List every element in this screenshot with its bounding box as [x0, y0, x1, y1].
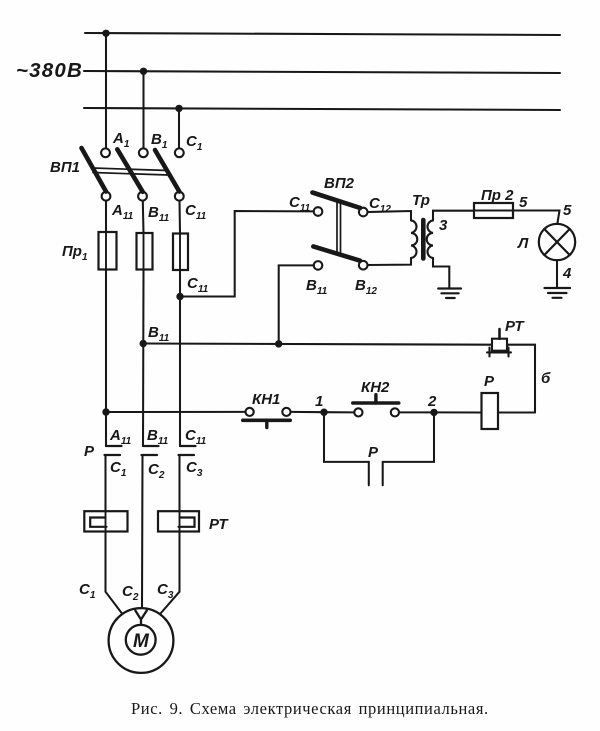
- button КН2: [353, 395, 399, 417]
- junction dot control tap A: [102, 408, 109, 415]
- svg-text:С3: С3: [157, 581, 174, 601]
- ВП2 contact circle В12: [359, 261, 368, 270]
- svg-text:В1: В1: [151, 131, 168, 151]
- svg-text:С11: С11: [187, 275, 209, 295]
- wire B11 to fuse: [142, 201, 145, 233]
- wire node2 to relay: [434, 411, 482, 413]
- heater РТ pole C: [158, 511, 199, 531]
- wire В12 to transformer primary bottom: [368, 258, 412, 265]
- svg-text:РТ: РТ: [209, 516, 229, 533]
- wire heater C to motor: [161, 532, 180, 614]
- svg-text:Пр 2: Пр 2: [481, 187, 514, 204]
- wire drop phase B from L2: [142, 71, 144, 148]
- bus line L3: [84, 108, 560, 110]
- aux contact Р left branch: [324, 412, 369, 485]
- svg-text:Тр: Тр: [412, 192, 430, 209]
- svg-text:С2: С2: [148, 461, 165, 481]
- svg-text:А1: А1: [112, 130, 130, 150]
- bus line L2: [84, 71, 560, 73]
- thermal contact РТ: [487, 329, 511, 357]
- aux contact Р right branch: [383, 412, 434, 485]
- ВП1 contact circle C1: [175, 148, 184, 157]
- svg-text:А11: А11: [111, 202, 134, 222]
- wire heater A to motor: [106, 532, 123, 614]
- svg-text:Рис. 9. Схема электрическая пр: Рис. 9. Схема электрическая принципиальн…: [131, 699, 489, 718]
- transformer core: [421, 220, 426, 259]
- svg-text:5: 5: [563, 202, 572, 219]
- ВП2 contact circle В11: [314, 261, 323, 270]
- fuse Пр1 pole C: [173, 234, 188, 271]
- wire control tap to КН1: [106, 411, 246, 413]
- wire secondary to fuse Пр2: [433, 211, 474, 221]
- svg-text:С2: С2: [122, 583, 139, 603]
- lamp Л: [539, 224, 575, 260]
- ВП2 blade pole C: [312, 193, 360, 208]
- wire B11 control feed: [143, 344, 492, 345]
- wire lamp to ground: [556, 260, 558, 287]
- wire КН1 to node 1: [291, 411, 324, 413]
- svg-text:Пр1: Пр1: [62, 243, 88, 263]
- svg-text:3: 3: [439, 217, 448, 234]
- svg-text:С11: С11: [185, 202, 207, 222]
- wire secondary bottom to ground: [433, 258, 449, 288]
- wire pole B down: [141, 455, 144, 608]
- junction dot L3/C: [175, 105, 182, 112]
- wire C11 to fuse: [178, 201, 181, 234]
- svg-text:В11: В11: [148, 204, 170, 224]
- fuse Пр1 pole B: [137, 233, 153, 270]
- wire C11 branch to ВП2: [180, 211, 314, 297]
- svg-text:В11: В11: [306, 277, 328, 297]
- ВП1 contact circle B11: [138, 192, 147, 201]
- junction dot ВП2-B branch: [275, 340, 282, 347]
- svg-text:1: 1: [315, 393, 323, 410]
- svg-text:М: М: [133, 631, 150, 652]
- main contact Р pole C: [179, 446, 196, 455]
- svg-text:4: 4: [562, 265, 572, 282]
- wire fuse to lamp: [513, 211, 560, 225]
- ВП1 blade pole B: [117, 149, 142, 192]
- wire С12 to transformer primary: [368, 211, 412, 220]
- wire drop phase C from L3: [178, 108, 180, 148]
- wire relay to corner: [498, 411, 535, 413]
- svg-text:б: б: [541, 370, 551, 387]
- fuse Пр1 pole A: [99, 232, 117, 270]
- svg-text:С11: С11: [185, 427, 207, 447]
- wire КН2 to node 2: [399, 411, 434, 413]
- svg-text:~380В: ~380В: [16, 59, 83, 82]
- junction dot C11 branch: [176, 293, 183, 300]
- motor М inner circle: [126, 625, 156, 655]
- ВП1 blade pole A: [82, 148, 107, 192]
- wire phase C fuse down: [179, 270, 181, 446]
- main contact Р pole A: [105, 446, 122, 455]
- ВП2 contact circle С11: [314, 207, 323, 216]
- wire ВП2 B11 branch: [279, 265, 314, 344]
- motor М outer circle: [109, 608, 174, 673]
- junction dot L2/B: [140, 68, 147, 75]
- transformer secondary winding: [427, 220, 433, 258]
- fuse Пр2: [474, 203, 513, 218]
- wire phase A fuse to control tap: [105, 270, 107, 447]
- svg-text:2: 2: [427, 393, 437, 410]
- wire РТ to corner: [507, 345, 535, 413]
- svg-text:Р: Р: [84, 443, 95, 460]
- relay coil Р: [482, 393, 499, 429]
- wire drop phase A from L1: [105, 33, 107, 148]
- svg-text:С1: С1: [110, 459, 127, 479]
- svg-text:Р: Р: [484, 373, 495, 390]
- wire phase B fuse down: [142, 270, 145, 447]
- main contact Р pole B: [142, 446, 159, 455]
- svg-text:Р: Р: [368, 444, 379, 461]
- ВП1 contact circle B1: [139, 148, 148, 157]
- wire pole C to heater: [178, 455, 180, 511]
- svg-text:В11: В11: [147, 427, 169, 447]
- svg-text:ВП2: ВП2: [324, 175, 355, 192]
- ВП1 contact circle A11: [102, 192, 111, 201]
- ВП1 blade pole C: [155, 150, 179, 192]
- wire node 1 to КН2: [324, 411, 354, 413]
- ВП2 contact circle С12: [359, 208, 368, 217]
- svg-text:ВП1: ВП1: [50, 159, 80, 176]
- svg-text:РТ: РТ: [505, 318, 525, 335]
- svg-text:5: 5: [519, 194, 528, 211]
- ВП1 linkage bar: [93, 168, 168, 175]
- svg-text:А11: А11: [109, 427, 132, 447]
- bus line L1: [85, 33, 560, 35]
- button КН1: [243, 408, 291, 428]
- svg-text:Л: Л: [517, 235, 529, 252]
- ground under lamp: [545, 288, 571, 298]
- ВП1 contact circle C11: [175, 192, 184, 201]
- ВП2 blade pole B: [313, 246, 360, 260]
- svg-text:КН1: КН1: [252, 391, 280, 408]
- svg-text:В11: В11: [148, 324, 170, 344]
- svg-text:С3: С3: [186, 459, 203, 479]
- motor star Y symbol: [135, 611, 147, 625]
- junction dot B11 tap: [140, 340, 147, 347]
- transformer primary winding: [411, 220, 417, 258]
- junction dot node 2: [430, 409, 437, 416]
- svg-text:С1: С1: [186, 133, 203, 153]
- heater РТ pole A: [84, 511, 127, 531]
- svg-text:С1: С1: [79, 581, 96, 601]
- ВП2 linkage bar: [337, 201, 341, 255]
- ground under transformer: [438, 289, 461, 299]
- svg-text:В12: В12: [355, 277, 377, 297]
- ВП1 contact circle A1: [101, 148, 110, 157]
- wire A11 to fuse: [105, 201, 107, 232]
- junction dot L1/A: [102, 30, 109, 37]
- wire pole A to heater: [104, 455, 106, 511]
- junction dot node 1: [320, 409, 327, 416]
